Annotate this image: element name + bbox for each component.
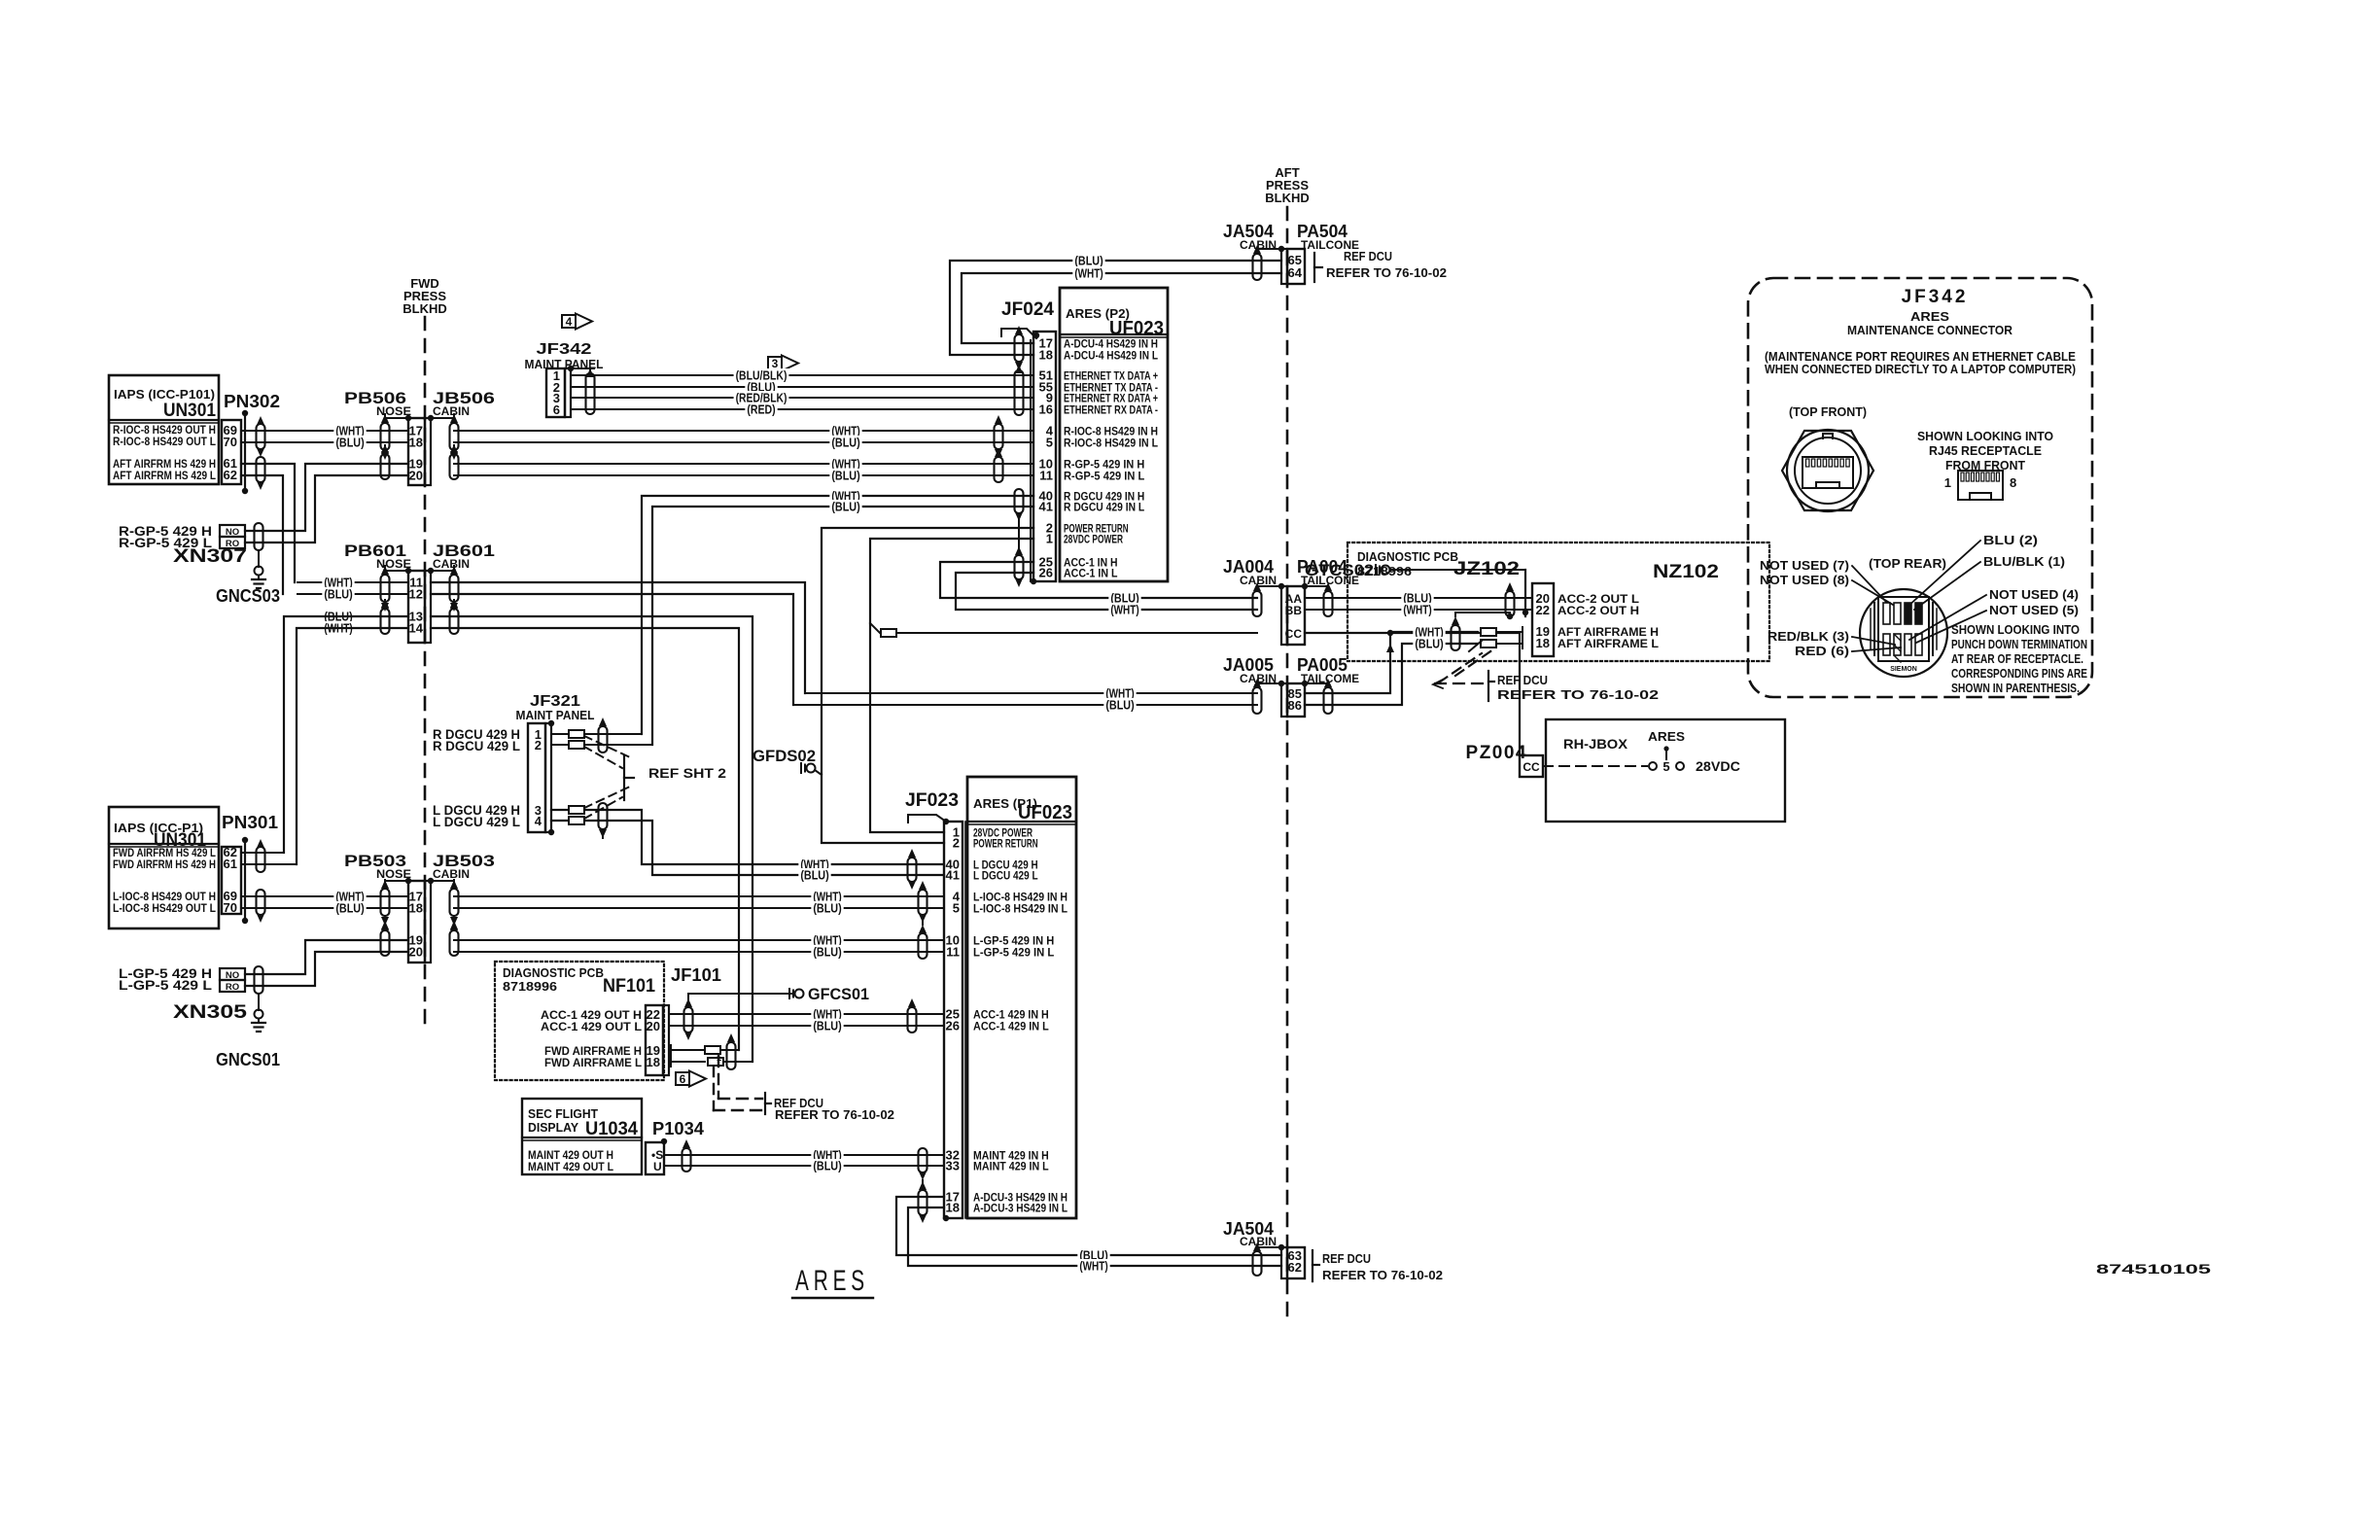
shield PB503 left	[381, 889, 390, 916]
shield JB506 right	[450, 454, 459, 479]
ARES 28VDC terminal	[1543, 765, 1647, 767]
front view RJ45 jack	[1802, 457, 1853, 488]
svg-text:(BLU): (BLU)	[813, 946, 841, 960]
svg-text:RH-JBOX: RH-JBOX	[1563, 736, 1628, 752]
wire PB601-13 from PN301-62	[284, 616, 408, 853]
labels L DGCU wires	[798, 857, 830, 871]
svg-text:GNCS03: GNCS03	[216, 586, 280, 606]
svg-text:A-DCU-3 HS429 IN L: A-DCU-3 HS429 IN L	[973, 1204, 1067, 1215]
svg-text:REFER TO 76-10-02: REFER TO 76-10-02	[775, 1107, 894, 1122]
shield PN301 62/61	[257, 847, 265, 872]
wire PA005-85 to NZ102-19	[1305, 632, 1478, 693]
svg-text:ETHERNET RX DATA -: ETHERNET RX DATA -	[1064, 405, 1158, 417]
svg-text:(BLU): (BLU)	[335, 437, 364, 450]
shield P2 25/26	[1015, 555, 1024, 579]
wire JA005-85 left	[805, 692, 1257, 694]
SEC FLIGHT DISPLAY U1034 box	[522, 1099, 642, 1174]
svg-text:R-IOC-8 HS429 OUT L: R-IOC-8 HS429 OUT L	[113, 437, 216, 448]
svg-text:18: 18	[409, 901, 423, 916]
svg-text:NOSE: NOSE	[376, 404, 411, 418]
shield P1 40/41	[908, 857, 917, 882]
wire JB506-17 to UF023-P2 pin 4	[454, 430, 1033, 432]
wire P2-2 POWER RETURN to P1-2	[822, 528, 1033, 843]
connector PB601/JB601 body	[408, 571, 425, 643]
svg-text:AT REAR OF RECEPTACLE.: AT REAR OF RECEPTACLE.	[1951, 652, 2083, 666]
svg-text:A-DCU-4 HS429 IN H: A-DCU-4 HS429 IN H	[1064, 339, 1158, 351]
shield JA004 right	[1324, 591, 1333, 616]
wire P1-17 to JA504-63	[896, 1197, 1281, 1255]
PN302 pin column	[222, 420, 241, 484]
shield P1 10/11	[919, 933, 927, 959]
shield P2 ethernet	[1015, 370, 1024, 415]
shield P1 25/26	[908, 1007, 917, 1032]
svg-text:U1034: U1034	[585, 1119, 638, 1139]
flag 3	[768, 357, 782, 369]
svg-text:874510105: 874510105	[2096, 1261, 2211, 1277]
svg-text:70: 70	[224, 435, 237, 449]
JF024 connector shell	[1001, 329, 1036, 338]
PN301 pin column	[222, 847, 241, 914]
shield JF321 3/4	[599, 803, 608, 829]
svg-text:(BLU): (BLU)	[800, 869, 828, 883]
svg-text:CORRESPONDING PINS ARE: CORRESPONDING PINS ARE	[1951, 667, 2087, 681]
svg-text:R DGCU 429 L: R DGCU 429 L	[433, 739, 520, 753]
wire P1034-S to P1-32	[664, 1154, 944, 1156]
svg-text:FWD AIRFRM HS 429 L: FWD AIRFRM HS 429 L	[113, 848, 216, 859]
svg-text:RED/BLK (3): RED/BLK (3)	[1767, 630, 1849, 644]
wire JA504-64 (WHT) to P2-17	[962, 273, 1281, 343]
shield P1 17/18	[919, 1190, 927, 1215]
shield P1 32/33	[919, 1148, 927, 1172]
shield UN301 69/70	[257, 424, 265, 449]
ground GNCS03	[258, 551, 260, 567]
shield JB601 right	[450, 575, 459, 602]
wire JF342-2 ethernet BLU	[571, 386, 1033, 388]
svg-text:62: 62	[1288, 1260, 1302, 1275]
svg-text:ETHERNET TX DATA +: ETHERNET TX DATA +	[1064, 371, 1158, 383]
shield NZ102 19/18	[1452, 625, 1460, 650]
wire L-GP-5 L to PB503-20	[245, 952, 408, 986]
svg-text:GTCS02: GTCS02	[1305, 561, 1374, 579]
rear punch-down block	[1878, 597, 1929, 661]
shield JB601 right	[450, 609, 459, 634]
svg-text:ARES: ARES	[1648, 729, 1685, 744]
svg-text:(WHT): (WHT)	[1110, 604, 1138, 617]
svg-text:MAINT 429 OUT H: MAINT 429 OUT H	[528, 1150, 613, 1162]
svg-text:(BLU): (BLU)	[813, 902, 841, 916]
svg-text:AFT AIRFRM HS 429 L: AFT AIRFRM HS 429 L	[113, 471, 216, 482]
svg-text:22: 22	[1536, 603, 1550, 617]
svg-text:ARES: ARES	[1910, 309, 1949, 324]
JF023 connector shell	[908, 815, 946, 822]
svg-text:ARES: ARES	[795, 1265, 869, 1297]
wire R-IOC-8 OUT H 69 to PB506-17	[241, 430, 408, 432]
svg-text:11: 11	[1039, 469, 1053, 483]
svg-text:41: 41	[1039, 500, 1053, 514]
svg-text:UN301: UN301	[163, 401, 216, 421]
svg-text:WHEN CONNECTED DIRECTLY TO A L: WHEN CONNECTED DIRECTLY TO A LAPTOP COMP…	[1765, 363, 2076, 376]
svg-text:1: 1	[717, 1053, 721, 1063]
svg-text:1: 1	[1944, 475, 1951, 490]
PN301 connector shell	[244, 840, 246, 921]
wire JF321-4 L DGCU L	[551, 821, 944, 875]
wire JA504-65 (BLU) to P2-18	[950, 261, 1281, 355]
svg-text:ETHERNET RX DATA +: ETHERNET RX DATA +	[1064, 394, 1158, 405]
svg-text:6: 6	[553, 402, 560, 417]
svg-text:14: 14	[409, 621, 424, 636]
svg-text:41: 41	[946, 868, 960, 883]
svg-text:(BLU): (BLU)	[831, 501, 859, 514]
svg-text:REFER TO 76-10-02: REFER TO 76-10-02	[1497, 687, 1659, 702]
wire L-GP-5 H to PB503-19	[245, 940, 408, 974]
svg-text:REF DCU: REF DCU	[1497, 673, 1548, 687]
wire JF321-1	[551, 733, 642, 735]
svg-text:SHOWN LOOKING INTO: SHOWN LOOKING INTO	[1951, 623, 2080, 637]
svg-text:UF023: UF023	[1109, 318, 1164, 339]
front view connector drawing	[1782, 431, 1873, 510]
svg-text:12: 12	[409, 587, 423, 602]
svg-text:ACC-1 429 IN H: ACC-1 429 IN H	[973, 1010, 1049, 1022]
shield PB503 left	[381, 930, 390, 956]
wire PA004-BB to NZ102-22	[1305, 609, 1532, 611]
svg-text:5: 5	[1662, 759, 1669, 774]
wire R-IOC-8 OUT L 70 to PB506-18	[241, 441, 408, 443]
DIAGNOSTIC PCB NZ102 dotted box	[1347, 542, 1769, 661]
svg-text:L-IOC-8 HS429 OUT H: L-IOC-8 HS429 OUT H	[113, 892, 216, 903]
wire PB601-14 from PN301-61	[297, 628, 408, 864]
svg-text:(BLU): (BLU)	[831, 470, 859, 483]
svg-text:(BLU): (BLU)	[1415, 638, 1443, 651]
REF DCU callout bottom	[1312, 1250, 1313, 1281]
svg-text:XN307: XN307	[173, 546, 247, 567]
shield XN305	[255, 966, 263, 994]
wire JF342-1 ethernet BLU/BLK	[571, 374, 1033, 376]
wire JB506-20 to UF023-P2 pin 11	[454, 474, 1033, 476]
svg-text:62: 62	[224, 468, 237, 482]
shield P2 40/41	[1015, 489, 1024, 513]
svg-text:R-IOC-8 HS429 OUT H: R-IOC-8 HS429 OUT H	[113, 425, 216, 437]
wire PN301-62 up (drawn above)	[241, 852, 284, 854]
shield PB506 left	[381, 454, 390, 479]
shield PB601 left	[381, 609, 390, 634]
svg-text:NZ102: NZ102	[1653, 562, 1719, 582]
svg-text:U: U	[653, 1160, 662, 1173]
svg-text:(BLU): (BLU)	[813, 1020, 841, 1033]
svg-text:REFER TO 76-10-02: REFER TO 76-10-02	[1322, 1268, 1443, 1282]
svg-text:DISPLAY: DISPLAY	[528, 1121, 579, 1135]
svg-text:MAINTENANCE CONNECTOR: MAINTENANCE CONNECTOR	[1847, 323, 2013, 337]
ARES (P1) UF023 box	[967, 777, 1076, 1218]
shield JA005 right	[1324, 687, 1333, 714]
wire JA005-86 left	[793, 704, 1257, 706]
wire P2-26 to JA004-BB	[956, 573, 1257, 610]
wire JB601-14 down to NF101 FWD AIRFRAME H	[431, 628, 739, 1050]
svg-text:POWER RETURN: POWER RETURN	[973, 839, 1038, 851]
shield NF101 19/18	[727, 1042, 736, 1069]
svg-text:18: 18	[946, 1201, 960, 1215]
svg-text:(WHT): (WHT)	[1079, 1260, 1107, 1274]
svg-text:BLKHD: BLKHD	[402, 301, 447, 316]
svg-text:(BLU): (BLU)	[813, 1160, 841, 1173]
ARES (P2) UF023 box	[1060, 288, 1168, 581]
ground GNCS01	[258, 995, 260, 1010]
svg-text:L-IOC-8 HS429 IN H: L-IOC-8 HS429 IN H	[973, 892, 1067, 904]
wire JB503-19 to P1 pin 10	[454, 939, 944, 941]
REF DCU dashed callout fwd	[713, 1067, 715, 1110]
svg-text:18: 18	[1536, 636, 1550, 650]
svg-text:DIAGNOSTIC PCB: DIAGNOSTIC PCB	[503, 965, 604, 980]
wire NF101-20 to P1-26	[669, 1025, 944, 1027]
svg-text:GFDS02: GFDS02	[752, 747, 816, 765]
wire PN301-61 up	[241, 863, 297, 865]
svg-text:(BLU): (BLU)	[324, 588, 352, 602]
DIAGNOSTIC PCB NF101 dotted box	[495, 962, 664, 1080]
svg-text:CABIN: CABIN	[433, 404, 470, 418]
svg-text:SIEMON: SIEMON	[1890, 666, 1917, 673]
svg-text:NOSE: NOSE	[376, 867, 411, 881]
shield P2 4/5	[995, 424, 1003, 449]
FWD PRESS BLKHD dashed line	[424, 317, 427, 1032]
svg-text:L-GP-5 429 L: L-GP-5 429 L	[119, 978, 212, 993]
svg-text:(BLU): (BLU)	[831, 437, 859, 450]
splice NZ102 19	[1481, 628, 1496, 636]
connector PB503/JB503 body	[408, 881, 425, 962]
wire R DGCU L from JF321-2 to P2 pin 41	[652, 507, 1033, 745]
svg-text:(WHT): (WHT)	[1074, 267, 1102, 281]
JF024 pin column	[1033, 332, 1056, 581]
wire JB503-20 to P1 pin 11	[454, 951, 944, 953]
wire P1-18 to JA504-62	[908, 1207, 1281, 1266]
P1034 connector shell	[663, 1141, 665, 1174]
NF101 pin column	[646, 1005, 663, 1075]
svg-text:5: 5	[953, 901, 960, 916]
JF023 pin column	[944, 822, 962, 1218]
svg-text:6: 6	[680, 1072, 686, 1086]
svg-text:REFER TO 76-10-02: REFER TO 76-10-02	[1326, 265, 1447, 280]
wire JB503-17 to P1 pin 4	[454, 895, 944, 897]
svg-text:ACC-1 429 IN L: ACC-1 429 IN L	[973, 1022, 1049, 1033]
wire JB506-19 to UF023-P2 pin 10	[454, 463, 1033, 465]
svg-text:26: 26	[946, 1019, 960, 1033]
RH-JBOX box	[1546, 719, 1785, 822]
wire L-IOC-8 L 70 to PB503-18	[241, 907, 408, 909]
svg-text:CC: CC	[1285, 627, 1303, 641]
shield PB506 left	[381, 423, 390, 450]
svg-text:20: 20	[409, 945, 423, 960]
svg-text:P1034: P1034	[652, 1119, 704, 1138]
shield JA004 left	[1253, 591, 1262, 616]
svg-text:2: 2	[953, 836, 960, 851]
svg-text:GNCS01: GNCS01	[216, 1050, 280, 1069]
splice NZ102 18	[1481, 640, 1496, 647]
svg-text:A-DCU-4 HS429 IN L: A-DCU-4 HS429 IN L	[1064, 351, 1158, 363]
shield PN301 69/70	[257, 890, 265, 915]
svg-text:CABIN: CABIN	[433, 557, 470, 571]
svg-text:JF024: JF024	[1001, 299, 1054, 320]
svg-text:R-GP-5 429 IN H: R-GP-5 429 IN H	[1064, 460, 1144, 472]
REF DCU dashed callout aft	[1435, 682, 1486, 684]
wire NF101-18 FWD AIRFRAME L	[670, 1057, 672, 1067]
svg-text:11: 11	[946, 945, 960, 960]
svg-text:L-IOC-8 HS429 IN L: L-IOC-8 HS429 IN L	[973, 904, 1067, 916]
shield JB506 right	[450, 423, 459, 450]
wire JF342-3 ethernet RED/BLK	[571, 397, 1033, 399]
svg-text:JF342: JF342	[537, 341, 592, 358]
svg-text:PUNCH DOWN TERMINATION: PUNCH DOWN TERMINATION	[1951, 638, 2087, 651]
shield NF101 22/20	[684, 1007, 693, 1032]
wire JF321-2	[551, 744, 652, 746]
wire JB601-12 to JA005-86	[431, 594, 793, 705]
wire R-GP-5 H to PB506-19	[245, 464, 408, 531]
svg-text:XN305: XN305	[173, 1002, 248, 1023]
svg-text:MAINT 429 IN L: MAINT 429 IN L	[973, 1162, 1049, 1173]
svg-text:18: 18	[409, 436, 423, 450]
wires into PB601 left	[297, 581, 408, 583]
shield NZ102 20/22	[1506, 591, 1515, 616]
rear view circle	[1860, 589, 1947, 677]
svg-text:NF101: NF101	[603, 976, 655, 997]
svg-text:FWD AIRFRAME L: FWD AIRFRAME L	[544, 1056, 642, 1069]
svg-text:AFT AIRFRM HS 429 H: AFT AIRFRM HS 429 H	[113, 459, 216, 471]
svg-text:JF342: JF342	[1902, 287, 1969, 307]
wire PA005-86 to NZ102-18	[1305, 644, 1478, 705]
svg-text:NOT USED (8): NOT USED (8)	[1760, 574, 1849, 587]
connector PB506/JB506 body	[408, 418, 425, 485]
wire JB503-18 to P1 pin 5	[454, 907, 944, 909]
wire R DGCU H from JF321-1 to P2 pin 40	[642, 496, 1033, 734]
wire NF101-22 to P1-25	[669, 1013, 944, 1015]
svg-text:(BLU): (BLU)	[1074, 255, 1102, 268]
svg-text:BB: BB	[1285, 604, 1303, 617]
shield P2 17/18	[1015, 334, 1024, 362]
GFCS01 pigtail	[688, 994, 792, 1007]
svg-text:R-IOC-8 HS429 IN L: R-IOC-8 HS429 IN L	[1064, 438, 1158, 450]
JF342 maintenance connector detail panel	[1748, 278, 2092, 697]
shield UN301 61/62	[257, 457, 265, 482]
svg-text:CABIN: CABIN	[433, 867, 470, 881]
svg-text:ACC-2 OUT H: ACC-2 OUT H	[1557, 604, 1639, 617]
svg-text:28VDC POWER: 28VDC POWER	[1064, 535, 1124, 546]
wire AFT AIRFRM H 61 down to JB601-11	[241, 464, 295, 582]
svg-text:5: 5	[1046, 436, 1053, 450]
svg-text:PN301: PN301	[222, 813, 278, 832]
wire L-IOC-8 H 69 to PB503-17	[241, 895, 408, 897]
P1034 pin column	[646, 1142, 664, 1174]
shield XN307	[255, 523, 263, 550]
svg-text:IAPS (ICC-P101): IAPS (ICC-P101)	[114, 387, 215, 402]
REF DCU callout top	[1313, 253, 1315, 282]
svg-text:PN302: PN302	[224, 392, 280, 411]
svg-text:ACC-1 429 OUT L: ACC-1 429 OUT L	[541, 1020, 642, 1033]
svg-text:BLU (2): BLU (2)	[1983, 534, 2038, 547]
wire PA004-AA to NZ102-20	[1305, 597, 1532, 599]
IAPS (ICC-P1) UN301 box	[109, 807, 219, 928]
wire PA004-CC to PZ004	[1305, 633, 1520, 755]
svg-text:BLKHD: BLKHD	[1265, 191, 1310, 205]
svg-text:R-GP-5 429 IN L: R-GP-5 429 IN L	[1064, 472, 1144, 483]
svg-text:RO: RO	[226, 982, 239, 993]
wire R-GP-5 L to PB506-20	[245, 475, 408, 542]
svg-text:86: 86	[1288, 698, 1302, 713]
shield PB601 left	[381, 575, 390, 602]
svg-text:(MAINTENANCE PORT REQUIRES AN: (MAINTENANCE PORT REQUIRES AN ETHERNET C…	[1765, 350, 2076, 364]
wire JF342-6 ethernet RED	[571, 408, 1033, 410]
28VDC tap splice to JA004-CC	[870, 623, 880, 633]
shield P1 4/5	[919, 890, 927, 915]
svg-text:28VDC: 28VDC	[1696, 759, 1740, 774]
IAPS (ICC-P101) UN301 box	[109, 375, 219, 484]
svg-text:NOT USED (4): NOT USED (4)	[1989, 588, 2079, 602]
svg-text:AFT AIRFRAME L: AFT AIRFRAME L	[1557, 637, 1659, 650]
svg-text:PZ004: PZ004	[1466, 743, 1527, 763]
wire JB601-13 down to NF101 FWD AIRFRAME L	[431, 616, 752, 1062]
svg-text:SHOWN LOOKING INTO: SHOWN LOOKING INTO	[1917, 429, 2053, 443]
svg-text:NOSE: NOSE	[376, 557, 411, 571]
svg-text:(TOP FRONT): (TOP FRONT)	[1789, 404, 1867, 419]
shield P2 10/11	[995, 457, 1003, 482]
svg-text:JF023: JF023	[905, 790, 959, 811]
PN302 connector shell	[244, 413, 246, 491]
svg-text:1: 1	[1046, 532, 1053, 546]
svg-text:R-IOC-8 HS429 IN H: R-IOC-8 HS429 IN H	[1064, 427, 1158, 438]
svg-text:L-GP-5 429 IN H: L-GP-5 429 IN H	[973, 936, 1054, 948]
wire P1034-U to P1-33	[664, 1165, 944, 1167]
AFT PRESS BLKHD dashed line	[1286, 207, 1289, 1318]
flag 4	[562, 315, 576, 328]
shield JB503 right	[450, 930, 459, 956]
svg-text:JF101: JF101	[671, 965, 721, 985]
flag 6	[676, 1072, 689, 1085]
REF SHT 2 callout	[623, 755, 625, 800]
svg-text:REF SHT 2: REF SHT 2	[648, 765, 726, 781]
svg-text:RJ45 RECEPTACLE: RJ45 RECEPTACLE	[1929, 443, 2042, 458]
svg-text:L-GP-5 429 IN L: L-GP-5 429 IN L	[973, 948, 1054, 960]
svg-text:SHOWN IN PARENTHESIS.: SHOWN IN PARENTHESIS.	[1951, 682, 2080, 695]
NZ102 pin column	[1532, 583, 1554, 656]
svg-text:L DGCU 429 L: L DGCU 429 L	[973, 871, 1038, 883]
svg-text:UF023: UF023	[1018, 802, 1072, 823]
svg-text:NOT USED (7): NOT USED (7)	[1760, 559, 1849, 573]
svg-text:8: 8	[2010, 475, 2016, 490]
wire JB506-18 to UF023-P2 pin 5	[454, 441, 1033, 443]
svg-text:(BLU): (BLU)	[1105, 699, 1134, 713]
svg-text:L DGCU 429 L: L DGCU 429 L	[433, 815, 520, 829]
shield JA504	[1253, 254, 1262, 280]
svg-text:20: 20	[647, 1019, 660, 1033]
shield JB503 right	[450, 889, 459, 916]
wire P2-1 28VDC POWER to P1-1	[870, 539, 1033, 832]
wire P2-25 to JA004-AA	[940, 562, 1257, 598]
svg-text:26: 26	[1039, 566, 1053, 580]
svg-text:18: 18	[647, 1055, 660, 1069]
svg-text:BLU/BLK (1): BLU/BLK (1)	[1983, 555, 2065, 569]
svg-text:4: 4	[535, 814, 542, 828]
shield JF342	[586, 373, 595, 414]
svg-text:33: 33	[946, 1159, 960, 1173]
svg-text:FWD AIRFRM HS 429 H: FWD AIRFRM HS 429 H	[113, 859, 216, 871]
svg-text:RED (6): RED (6)	[1795, 645, 1849, 658]
shield JA005 left	[1253, 687, 1262, 714]
svg-text:4: 4	[566, 315, 573, 329]
svg-text:18: 18	[1039, 348, 1053, 363]
wire JB601-11 to JA005-85	[431, 582, 805, 693]
svg-text:R DGCU 429 IN L: R DGCU 429 IN L	[1064, 503, 1144, 514]
svg-text:61: 61	[224, 857, 237, 871]
NZ102 shell + GTCS02	[1524, 570, 1526, 616]
svg-text:ACC-1 IN L: ACC-1 IN L	[1064, 569, 1118, 580]
svg-text:20: 20	[409, 469, 423, 483]
svg-text:(RED): (RED)	[747, 403, 775, 417]
